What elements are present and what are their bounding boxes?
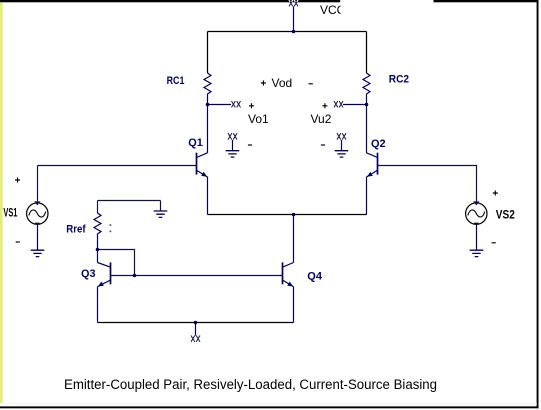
svg-text:Emitter-Coupled Pair, Resively: Emitter-Coupled Pair, Resively-Loaded, C…	[64, 377, 437, 392]
svg-text:VS1: VS1	[3, 205, 17, 219]
svg-text:Rref: Rref	[66, 223, 86, 235]
svg-text:RC1: RC1	[167, 75, 185, 87]
svg-text:RC2: RC2	[389, 73, 409, 85]
svg-text:Q4: Q4	[307, 271, 322, 283]
svg-text:Vo1: Vo1	[248, 112, 269, 126]
svg-text:Q3: Q3	[81, 268, 96, 280]
svg-text:Q1: Q1	[188, 137, 203, 149]
svg-text:Q2: Q2	[371, 138, 386, 150]
svg-text:Vod: Vod	[272, 76, 293, 90]
svg-text:Vu2: Vu2	[311, 112, 332, 126]
svg-text:VCC: VCC	[320, 3, 346, 17]
svg-text:VS2: VS2	[496, 207, 515, 221]
